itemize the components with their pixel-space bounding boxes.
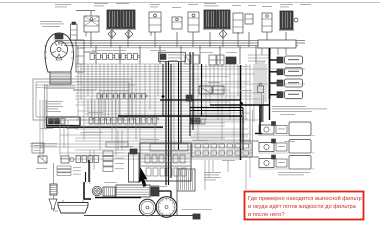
wire v3 <box>83 64 85 140</box>
pipe to cylinder pairs <box>210 104 270 106</box>
relief valve V4 <box>188 12 199 32</box>
valve V12 <box>258 86 264 93</box>
header tank rect <box>258 40 296 48</box>
pilot valve V1 <box>84 16 99 32</box>
valve V5 <box>233 13 243 33</box>
gear pump assembly <box>92 186 102 196</box>
label note 18 <box>66 127 78 130</box>
bus line 1 <box>55 40 305 42</box>
wire v43 <box>45 100 47 130</box>
wire v26 <box>201 64 203 86</box>
junction box J1 <box>159 52 186 61</box>
wire v42 <box>42 100 44 160</box>
wire v21 <box>157 64 159 96</box>
wire drop b6 <box>180 46 182 64</box>
wire v27 <box>205 64 207 120</box>
label caption 14 <box>262 5 272 8</box>
solenoid valve block S3 <box>204 10 216 28</box>
wire v23 <box>173 64 175 150</box>
wire h13 <box>75 95 252 97</box>
hydraulic cylinder C2 <box>285 68 303 76</box>
label note 8 <box>150 185 167 188</box>
wire v7 <box>99 64 101 150</box>
wire drop t8 <box>222 32 224 47</box>
pump bracket <box>76 40 84 72</box>
valve V7 <box>262 13 272 32</box>
wire v13 <box>123 64 125 96</box>
wire v51 <box>204 160 206 190</box>
wire drop t11 <box>266 32 268 47</box>
hydraulic cylinder C4 <box>285 91 303 99</box>
left net label box <box>32 143 44 153</box>
wire v50 <box>121 130 123 150</box>
wire v30 <box>217 64 219 120</box>
label note 2 <box>200 51 213 54</box>
cylinder stub 3 <box>270 82 278 84</box>
wire gray bundle <box>87 99 89 117</box>
wire v4 <box>87 64 89 96</box>
loop ring inner <box>36 82 129 117</box>
wire v33 <box>229 64 231 120</box>
wire drop b1 <box>77 46 79 64</box>
pump motor housing <box>45 33 73 72</box>
label caption 12 <box>232 4 241 7</box>
wire h34 <box>60 158 240 160</box>
wire drop b10 <box>255 46 257 64</box>
label note 7 <box>193 139 208 142</box>
main control valve block <box>140 143 191 181</box>
wire bundle right <box>255 61 257 105</box>
svg-text:и после него?: и после него? <box>248 212 285 218</box>
wire h19 <box>85 113 230 115</box>
check valve pair D2 <box>125 30 133 38</box>
wire v31 <box>221 64 223 140</box>
motor caption <box>278 171 310 174</box>
wire filter drop <box>53 163 55 184</box>
wire drop b4 <box>139 46 141 64</box>
solenoid valve block S4 <box>217 10 230 28</box>
label note 6 <box>140 138 159 141</box>
wire v34 <box>233 64 235 150</box>
wire v11 <box>115 64 117 155</box>
pipe junction dots <box>162 95 164 97</box>
wire drop b9 <box>239 46 241 64</box>
wire h25 <box>84 131 240 133</box>
wire v35 <box>237 64 239 96</box>
pump top cap <box>55 34 63 39</box>
manifold row 2 <box>97 94 101 100</box>
wire h32 <box>60 152 252 154</box>
solenoid S7 <box>186 95 192 101</box>
wire h17 <box>85 107 230 109</box>
label caption 5 <box>116 2 129 5</box>
wire h28 <box>75 140 248 142</box>
label caption 1 <box>55 3 71 6</box>
wire v38 <box>253 64 255 122</box>
wire h31 <box>75 149 252 151</box>
label caption 10 <box>204 2 216 5</box>
wire to left label <box>30 143 57 145</box>
motor unit M1 <box>259 125 274 134</box>
bus line 3 <box>64 45 298 47</box>
wire v41 <box>39 100 41 156</box>
hydraulic cylinder C1 <box>285 56 303 64</box>
cylinder stub 2 <box>270 71 278 73</box>
wire h29 <box>40 143 225 145</box>
bottom caption <box>182 208 212 211</box>
remote filter F1 <box>50 184 57 195</box>
pump rotor <box>51 41 68 58</box>
pipe around pump <box>84 182 91 199</box>
wire v2 <box>80 64 82 100</box>
wire v48 <box>93 150 95 170</box>
wire v52 <box>208 160 210 178</box>
wire h24 <box>75 128 248 130</box>
pressure pipe D <box>160 99 241 101</box>
annotation box <box>245 192 364 220</box>
belt line <box>138 207 140 209</box>
wire v5 <box>91 64 93 120</box>
wire v39 <box>257 61 259 105</box>
label note 17 <box>120 145 133 148</box>
cylinder caption <box>272 105 306 108</box>
wire h27 <box>75 137 225 139</box>
pulley wheel 1 <box>139 199 155 215</box>
hydraulic cylinder C3 <box>285 79 303 87</box>
wire v9 <box>107 64 109 100</box>
valve block V10 <box>199 86 212 94</box>
wire v8 <box>103 64 105 120</box>
wire v40 <box>261 61 263 122</box>
label caption 13 <box>248 4 256 7</box>
terminal stack B <box>103 151 113 155</box>
suction pipe <box>95 197 141 199</box>
wire v16 <box>135 64 137 140</box>
wire h9 <box>78 83 305 85</box>
wire v6 <box>95 52 97 90</box>
cylinder stub 4 <box>270 94 278 96</box>
pressure pipe E <box>190 107 243 109</box>
manifold row 3 <box>89 118 93 125</box>
wire h30 <box>40 146 240 148</box>
wire v29 <box>213 64 215 86</box>
wire h36 <box>36 87 130 89</box>
wire v36 <box>245 64 247 120</box>
wire v1 <box>77 64 79 120</box>
wire v22 <box>170 64 172 120</box>
filter F2 tall <box>129 153 140 182</box>
wire drop t9 <box>237 32 239 47</box>
wire v19 <box>149 64 151 110</box>
solenoid valve block S2 <box>121 10 135 28</box>
wire drop t3 <box>127 32 129 47</box>
wire v49 <box>117 130 119 150</box>
labeled box B1 <box>106 142 128 147</box>
svg-text:Где примерно находится выносно: Где примерно находится выносной фильтр <box>248 195 362 202</box>
valve V6 <box>245 14 253 24</box>
cylinder connector 3 <box>277 80 283 86</box>
wire h6 <box>75 76 230 78</box>
wire drop b2 <box>95 46 97 64</box>
wire v24 <box>193 64 195 120</box>
wire drop b8 <box>219 46 221 64</box>
wire drop t6 <box>192 32 194 47</box>
label note 1 <box>150 49 166 52</box>
manifold gauge row <box>90 54 94 60</box>
pilot actuator small <box>71 24 78 40</box>
label caption 17 <box>300 3 311 6</box>
wire h20 <box>75 116 245 118</box>
wire h16 <box>75 104 255 106</box>
wire drop t12 <box>285 32 287 47</box>
label caption 2 <box>55 6 67 9</box>
wire h4 <box>76 71 190 73</box>
cylinder connector 2 <box>277 69 283 75</box>
cylinder connector 1 <box>277 57 283 63</box>
valve V8 <box>185 55 191 64</box>
caption mid <box>80 131 103 134</box>
wire h33 <box>75 155 248 157</box>
wire drop t7 <box>209 32 211 47</box>
label note 5 <box>40 127 53 130</box>
oil pan <box>58 203 88 214</box>
label note 10 <box>222 159 235 162</box>
terminal stack A <box>57 166 71 169</box>
wire h14 <box>75 98 260 100</box>
motor unit M3 <box>259 159 274 168</box>
pressure pipe bundle A <box>165 62 167 186</box>
relief valve V2 <box>149 12 161 32</box>
label caption 9 <box>188 3 198 6</box>
sensor cluster dark <box>190 118 195 124</box>
wire h21 <box>75 119 260 121</box>
wire v15 <box>131 64 133 120</box>
wire h2 <box>75 66 250 68</box>
pulley wheel 2 <box>156 197 177 218</box>
label note 4 <box>88 111 103 114</box>
wire v54 <box>227 160 229 172</box>
loop ring outer <box>33 79 132 120</box>
wire drop t10 <box>248 32 250 47</box>
label note 9 <box>104 181 117 184</box>
wire h18 <box>78 110 230 112</box>
label note 3 <box>226 51 237 54</box>
wire drop b3 <box>119 46 121 64</box>
solenoid S6 <box>226 57 236 64</box>
check valve pair D3 <box>219 30 227 38</box>
wire v17 <box>139 64 141 143</box>
wire nozzle to pan <box>53 209 55 211</box>
wire row feeds <box>241 140 260 142</box>
wire v12 <box>119 64 121 120</box>
wire pump drop <box>44 84 46 128</box>
sensor row block 1 <box>38 156 47 163</box>
label caption 7 <box>150 6 158 9</box>
pump caption block <box>46 100 63 103</box>
text block mid-right <box>204 171 221 174</box>
label note 16 <box>208 81 220 84</box>
wire drop t2 <box>110 32 112 47</box>
control box <box>47 117 81 126</box>
wire v20 <box>154 64 156 143</box>
valve V3 <box>172 17 182 29</box>
pipe pump to pulleys <box>159 190 171 192</box>
bus line 2 <box>58 42 305 44</box>
wire actuator feeds <box>261 92 263 122</box>
label caption 16 <box>280 6 289 9</box>
label caption 3 <box>94 2 108 5</box>
wire h15 <box>78 101 230 103</box>
cylinder connector 4 <box>277 92 283 98</box>
wire v44 <box>59 120 61 156</box>
motor unit M2 <box>259 143 274 152</box>
wire v47 <box>89 150 91 184</box>
wire h7 <box>80 78 200 80</box>
check valve pair D1 <box>108 30 116 38</box>
wire v37 <box>249 64 251 143</box>
cylinder stub 1 <box>270 59 278 61</box>
label note 14 <box>36 167 47 170</box>
top border line <box>0 2 380 3</box>
label text block left <box>40 20 62 23</box>
wire v45 <box>63 120 65 148</box>
wire h22 <box>84 122 225 124</box>
wire drop t4 <box>154 32 156 47</box>
label note 13 <box>60 157 71 160</box>
wire h1 <box>75 63 190 65</box>
pressure pipe F <box>118 115 242 117</box>
valve block V11 <box>213 86 224 94</box>
feeder lines to cylinders <box>248 54 269 56</box>
valve block extension row <box>192 143 252 157</box>
wire v28 <box>209 64 211 105</box>
wire v32 <box>225 64 227 105</box>
main return pipe <box>46 126 163 128</box>
wire top-left stub <box>76 10 95 12</box>
wire v46 <box>67 120 69 156</box>
wire h35 <box>36 84 135 86</box>
wire rows mid-right <box>190 112 250 114</box>
feed pipe row1 <box>259 105 261 133</box>
wire h5 <box>78 73 255 75</box>
wire v53 <box>212 160 214 172</box>
solenoid valve block S5 <box>280 11 293 29</box>
bus line 4 <box>80 47 262 49</box>
wire h10 <box>82 86 245 88</box>
cooler box <box>177 169 195 191</box>
wire h23 <box>75 125 225 127</box>
label note 15 <box>240 89 252 92</box>
wire v14 <box>127 64 129 148</box>
wire v10 <box>111 64 113 140</box>
pressure pipe C <box>240 65 242 160</box>
wire h12 <box>75 92 260 94</box>
solenoid valve block S1 <box>107 10 120 28</box>
sensor row block 3 <box>76 156 81 163</box>
label note 12 <box>284 140 295 143</box>
valve V9 <box>209 55 216 65</box>
mouse cursor <box>139 168 148 188</box>
wire drop t1 <box>90 32 92 47</box>
wire v56 <box>249 160 251 178</box>
wire drop t5 <box>176 32 178 47</box>
main line to cylinders <box>269 48 271 99</box>
pressure pipe bundle B <box>178 62 180 150</box>
pump side hatch <box>44 46 74 58</box>
bottom long wire <box>84 215 196 217</box>
wire v55 <box>245 160 247 190</box>
svg-text:и окуда идёт поток жидкости до: и окуда идёт поток жидкости до фильтра <box>248 204 357 210</box>
wire h8 <box>76 81 250 83</box>
wire pump to mesh <box>84 51 96 53</box>
label caption 4 <box>94 5 104 8</box>
wire v18 <box>144 64 146 120</box>
wire drop b7 <box>199 46 201 64</box>
label caption 8 <box>172 6 181 9</box>
wire h3 <box>80 68 305 70</box>
label caption 6 <box>150 3 160 6</box>
pump base plate <box>50 72 71 84</box>
sensor row block 2 <box>61 156 69 163</box>
label caption 15 <box>280 3 293 6</box>
wire h26 <box>60 134 248 136</box>
label caption 11 <box>204 5 219 8</box>
label note 11 <box>280 113 295 116</box>
wire h11 <box>85 89 230 91</box>
wire v25 <box>197 64 199 140</box>
wire drop b5 <box>159 46 161 64</box>
drain nozzle <box>49 199 57 209</box>
